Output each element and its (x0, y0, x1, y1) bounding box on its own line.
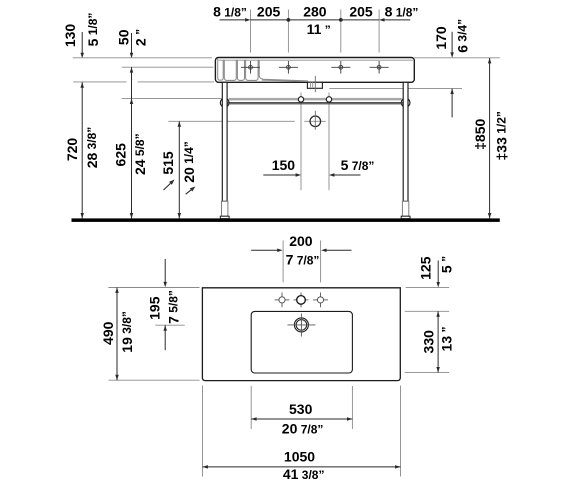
svg-text:20 1/4”: 20 1/4” (181, 141, 197, 183)
svg-text:7 7/8”: 7 7/8” (286, 252, 320, 268)
svg-text:205: 205 (349, 4, 373, 20)
svg-text:20 7/8”: 20 7/8” (282, 421, 324, 437)
svg-text:280: 280 (303, 4, 327, 20)
svg-text:41 3/8”: 41 3/8” (283, 466, 325, 482)
svg-text:330: 330 (421, 330, 437, 354)
svg-text:130: 130 (62, 24, 78, 48)
svg-text:7 5/8”: 7 5/8” (166, 290, 182, 324)
svg-text:13 ”: 13 ” (438, 327, 454, 352)
svg-text:8 1/8”: 8 1/8” (213, 4, 247, 20)
svg-text:2 ”: 2 ” (133, 29, 149, 46)
svg-text:50: 50 (116, 29, 132, 45)
svg-text:530: 530 (289, 401, 313, 417)
svg-text:625: 625 (113, 143, 129, 167)
svg-text:205: 205 (257, 4, 281, 20)
svg-text:200: 200 (289, 233, 313, 249)
svg-text:195: 195 (147, 296, 163, 320)
svg-text:515: 515 (160, 151, 176, 175)
svg-text:‡33 1/2”: ‡33 1/2” (493, 111, 509, 160)
svg-text:8 1/8”: 8 1/8” (385, 4, 419, 20)
svg-text:720: 720 (64, 138, 80, 162)
svg-text:28 3/8”: 28 3/8” (84, 127, 100, 169)
svg-text:‡850: ‡850 (472, 119, 488, 150)
svg-text:125: 125 (418, 256, 434, 280)
svg-text:24 5/8”: 24 5/8” (132, 133, 148, 175)
svg-text:490: 490 (100, 321, 116, 345)
svg-text:6 3/4”: 6 3/4” (454, 19, 470, 53)
svg-text:5 ”: 5 ” (439, 256, 455, 273)
svg-text:150: 150 (272, 157, 296, 173)
svg-text:11 ”: 11 ” (307, 21, 331, 37)
svg-text:1050: 1050 (284, 449, 315, 465)
svg-text:5 1/8”: 5 1/8” (85, 13, 101, 47)
svg-text:170: 170 (433, 26, 449, 50)
svg-text:5 7/8”: 5 7/8” (341, 157, 375, 173)
svg-text:19 3/8”: 19 3/8” (119, 311, 135, 353)
